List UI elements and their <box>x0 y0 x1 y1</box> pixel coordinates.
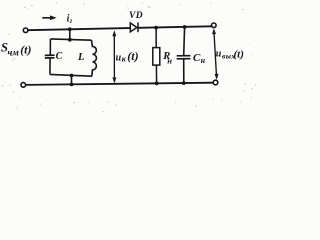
output terminal bottom-right <box>213 80 218 85</box>
voltage arrow u_вых(t) <box>212 28 219 80</box>
node: R_н bottom junction <box>155 82 159 86</box>
svg-text:u: u <box>116 52 122 63</box>
resistor R_н branch <box>153 28 160 84</box>
label C_н <box>193 52 206 65</box>
inductor L (right tank branch) <box>92 40 97 76</box>
input terminal bottom-left <box>21 83 26 88</box>
label S_чм(t) <box>1 41 32 59</box>
svg-text:(t): (t) <box>20 43 31 57</box>
label R_н <box>162 51 172 66</box>
capacitor C_н branch <box>177 27 191 83</box>
node: C_н bottom junction <box>182 81 186 85</box>
node: C_н top junction <box>183 25 187 29</box>
svg-text:L: L <box>77 52 84 63</box>
current arrow i_Г <box>42 15 56 20</box>
output terminal top-right <box>212 23 217 28</box>
label u_к(t) <box>116 49 139 63</box>
node: tank top junction on main wire <box>68 27 72 31</box>
node: tank bottom junction on main wire <box>70 83 74 87</box>
paper speckle noise (decorative) <box>2 2 257 112</box>
wire: tank top rail <box>51 39 92 40</box>
top wire (left of diode) <box>28 28 130 30</box>
svg-text:н: н <box>167 55 172 65</box>
input terminal top-left <box>23 28 28 33</box>
wire: tank top stub <box>69 29 71 40</box>
capacitor C (left tank branch) <box>45 39 55 75</box>
diode VD <box>130 22 138 32</box>
svg-text:г: г <box>70 17 73 25</box>
svg-text:(t): (t) <box>127 49 138 63</box>
node: diode output junction (R_н tap) <box>154 26 158 30</box>
label i_Г <box>67 14 73 25</box>
svg-text:(t): (t) <box>234 49 244 61</box>
label u_вых(t) <box>216 49 244 61</box>
node: tank top rail junction <box>68 38 72 42</box>
wire: tank bottom rail <box>50 74 92 76</box>
node: tank bottom rail junction <box>70 74 74 78</box>
svg-text:C: C <box>56 51 63 62</box>
svg-text:VD: VD <box>129 11 143 21</box>
svg-text:u: u <box>216 49 222 60</box>
wire: tank bottom stub <box>71 76 73 85</box>
top wire (right of diode) <box>138 26 212 28</box>
svg-text:н: н <box>201 56 206 65</box>
voltage arrow u_к(t) <box>112 30 116 83</box>
bottom wire <box>26 83 214 85</box>
